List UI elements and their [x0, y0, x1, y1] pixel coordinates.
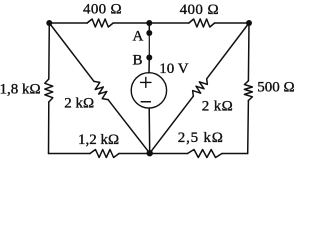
svg-text:2 kΩ: 2 kΩ	[202, 98, 234, 114]
wire right diagonal upper segment	[207, 23, 249, 79]
resistor 400 ohm (top right)	[189, 19, 215, 27]
voltage source V1 10 V (circle)	[131, 73, 166, 108]
wire top-middle-left segment	[113, 22, 149, 24]
junction dot top-left	[46, 20, 52, 26]
wire right diagonal lower segment	[150, 96, 194, 153]
svg-text:2,5 kΩ: 2,5 kΩ	[178, 130, 224, 146]
svg-text:1,2 kΩ: 1,2 kΩ	[78, 132, 119, 148]
wire bottom-middle-right segment	[150, 153, 188, 155]
wire bottom-right segment	[222, 153, 248, 155]
wire bottom-left segment	[49, 153, 91, 155]
wire node A to node B	[148, 33, 150, 58]
wire left rail upper segment	[48, 23, 51, 79]
svg-text:A: A	[132, 29, 143, 45]
svg-text:400 Ω: 400 Ω	[180, 2, 219, 18]
wire right rail lower segment	[247, 101, 250, 154]
junction dot top-right	[246, 20, 252, 26]
wire right rail upper segment	[247, 23, 250, 81]
svg-text:2 kΩ: 2 kΩ	[64, 95, 94, 111]
minus sign of source	[141, 101, 150, 103]
svg-text:B: B	[132, 52, 142, 68]
wire top-middle-right segment	[149, 22, 189, 24]
wire source bottom to bottom node	[148, 108, 151, 153]
junction dot top-middle	[146, 20, 152, 26]
resistor 2 kohm (right diagonal)	[190, 76, 210, 98]
wire node B to source top	[148, 58, 150, 73]
wire left diagonal upper segment	[49, 23, 94, 81]
resistor 1,2 kohm (bottom left)	[90, 150, 119, 158]
resistor 400 ohm (top left)	[87, 19, 113, 27]
svg-text:1,8 kΩ: 1,8 kΩ	[0, 82, 41, 98]
wire top-right segment	[215, 22, 249, 24]
wire left diagonal lower segment	[108, 100, 150, 154]
resistor 2,5 kohm (bottom right)	[188, 150, 223, 158]
plus sign of source	[141, 77, 151, 87]
wire middle junction to node A	[148, 23, 150, 33]
resistor 1,8 kohm (left rail)	[45, 79, 53, 102]
wire left rail lower segment	[48, 102, 50, 154]
resistor 2 kohm (left diagonal)	[91, 79, 111, 102]
svg-text:10 V: 10 V	[159, 61, 188, 77]
wire top-left segment	[49, 22, 87, 24]
resistor 500 ohm (right rail)	[244, 81, 252, 101]
node B dot	[146, 55, 152, 61]
junction dot bottom-center	[147, 150, 153, 156]
svg-text:400 Ω: 400 Ω	[83, 1, 122, 17]
node A dot	[146, 30, 152, 36]
wire bottom-middle-left segment	[119, 153, 150, 155]
svg-text:500 Ω: 500 Ω	[257, 79, 294, 95]
